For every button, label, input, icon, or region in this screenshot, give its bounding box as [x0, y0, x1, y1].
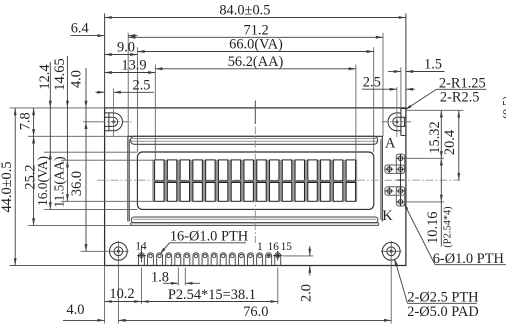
svg-text:10.2: 10.2: [109, 286, 134, 302]
dim 20.4: [442, 110, 460, 180]
dim 56.2(AA): [155, 54, 356, 70]
dim 76.0: [118, 304, 391, 322]
svg-text:12.4: 12.4: [37, 64, 53, 89]
svg-text:2.5: 2.5: [363, 74, 381, 90]
extension lines right: [401, 110, 464, 202]
dim 84.0±0.5: [105, 2, 406, 19]
svg-text:15.32: 15.32: [427, 121, 443, 153]
svg-text:1: 1: [257, 241, 263, 253]
svg-text:14.65: 14.65: [52, 58, 68, 90]
svg-text:(P2.54*4): (P2.54*4): [443, 206, 454, 247]
mounting hole bottom-left (2.5 PTH / 5.0 PAD): [108, 241, 129, 262]
svg-text:44.0±0.5: 44.0±0.5: [0, 161, 15, 212]
extension lines left: [10, 108, 156, 266]
svg-text:76.0: 76.0: [243, 304, 268, 320]
dim 1.5: [388, 56, 445, 73]
svg-text:6.4: 6.4: [71, 20, 89, 36]
svg-text:11.5(AA): 11.5(AA): [51, 156, 66, 207]
svg-text:P2.54*15=38.1: P2.54*15=38.1: [168, 287, 256, 303]
svg-text:4.0: 4.0: [68, 70, 84, 88]
dim 2.5 left: [96, 78, 155, 94]
callout 6-Ø1.0 PTH: [404, 203, 506, 267]
svg-text:7.8: 7.8: [17, 112, 33, 130]
svg-text:1.8: 1.8: [151, 270, 169, 286]
extension lines bottom: [105, 256, 392, 324]
svg-text:(0.5): (0.5): [500, 96, 506, 119]
dim 71.2: [128, 22, 383, 39]
character cell grid 16x2 (AA): [152, 160, 357, 202]
mounting hole bottom-right (2.5 PTH / 5.0 PAD): [381, 241, 402, 262]
dim 44.0±0.5: [0, 108, 17, 266]
bezel bottom lip bar: [131, 217, 379, 225]
extension lines top: [105, 14, 406, 161]
svg-text:A: A: [385, 136, 396, 152]
dim 15.32 and 10.16: [425, 110, 454, 247]
mounting keyhole top-left (R1.25/R2.5): [99, 89, 132, 137]
svg-text:9.0: 9.0: [117, 39, 135, 55]
dim 2.0: [299, 246, 315, 302]
svg-text:16-Ø1.0 PTH: 16-Ø1.0 PTH: [170, 228, 248, 244]
dim 7.8 and 25.2: [17, 108, 38, 225]
dim 6.4: [71, 20, 138, 37]
svg-text:20.4: 20.4: [442, 130, 458, 155]
callout 16-Ø1.0 PTH: [160, 228, 248, 254]
dim 13.9: [105, 57, 156, 74]
dim 66.0(VA): [137, 37, 373, 54]
svg-text:1.5: 1.5: [424, 56, 442, 72]
bezel top lip bar: [131, 136, 378, 144]
svg-text:15: 15: [281, 241, 293, 253]
svg-text:13.9: 13.9: [121, 57, 146, 73]
svg-text:2-R2.5: 2-R2.5: [440, 89, 480, 105]
horizontal centerline: [97, 179, 461, 181]
LCD viewing area (VA): [137, 152, 373, 209]
pin header row 16-pin (Ø1.0 PTH): [137, 246, 282, 266]
svg-text:2.0: 2.0: [299, 284, 315, 302]
dim P2.54*15=38.1: [141, 287, 277, 303]
dim 4.0 and 36.0: [68, 68, 87, 251]
LCD bezel frame: [128, 136, 382, 221]
callout 2-Ø2.5 PTH / 2-Ø5.0 PAD: [394, 258, 478, 320]
svg-text:84.0±0.5: 84.0±0.5: [219, 2, 270, 18]
svg-text:16: 16: [268, 241, 280, 253]
svg-text:10.16: 10.16: [425, 212, 441, 244]
svg-text:4.0: 4.0: [67, 302, 85, 318]
svg-text:K: K: [382, 208, 393, 224]
svg-text:36.0: 36.0: [69, 171, 85, 196]
dim 14.65 and 11.5(AA): [51, 56, 69, 208]
svg-text:16.0(VA): 16.0(VA): [35, 156, 50, 206]
svg-text:56.2(AA): 56.2(AA): [228, 54, 284, 70]
vertical centerline: [254, 101, 256, 244]
dim 4.0 bottom: [63, 302, 126, 322]
dim 1.8: [151, 270, 200, 286]
svg-text:2-Ø5.0 PAD: 2-Ø5.0 PAD: [407, 304, 478, 320]
svg-text:14: 14: [135, 240, 147, 252]
mounting keyhole top-right (R1.25/R2.5): [382, 87, 413, 137]
dim 12.4 and 16.0(VA): [35, 62, 53, 209]
dim 2.5 right: [362, 74, 415, 90]
dim 9.0: [105, 39, 138, 56]
svg-text:2.5: 2.5: [133, 78, 151, 94]
backlight pads 6-Ø1.0 (A/K): [385, 154, 405, 207]
PCB outline: [105, 108, 406, 266]
svg-text:66.0(VA): 66.0(VA): [229, 37, 283, 53]
callout 2-R1.25 / 2-R2.5: [405, 75, 487, 110]
dim 10.2: [105, 286, 142, 303]
